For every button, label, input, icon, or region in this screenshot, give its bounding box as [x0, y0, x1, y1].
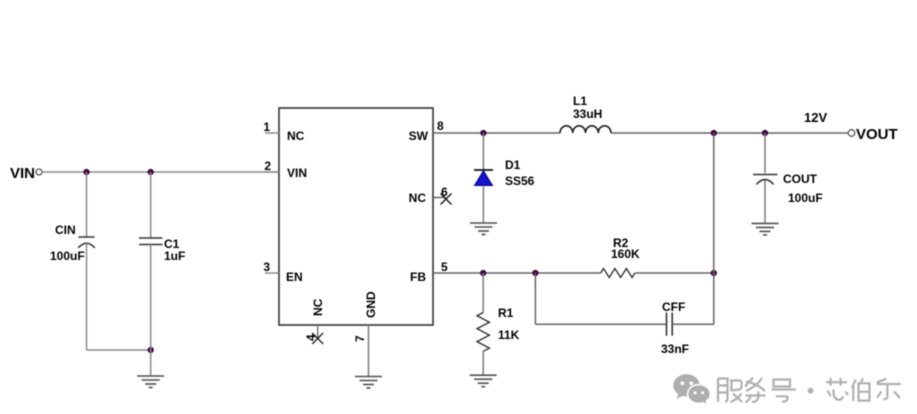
wire COUT top	[764, 133, 766, 173]
wire CIN top	[86, 172, 88, 237]
svg-text:VOUT: VOUT	[856, 126, 898, 143]
wire R1 bottom	[482, 351, 484, 375]
inductor L1	[560, 126, 611, 133]
svg-text:CIN: CIN	[55, 223, 76, 237]
svg-text:EN: EN	[286, 270, 303, 284]
capacitor CFF	[667, 313, 673, 336]
svg-text:11K: 11K	[498, 328, 520, 342]
wire SW rail left	[447, 132, 560, 134]
ground below pin 7	[355, 377, 382, 389]
wire VIN rail	[42, 171, 279, 173]
node junction SW/D1	[481, 130, 486, 135]
svg-text:160K: 160K	[611, 247, 640, 261]
wire FB rail	[447, 272, 601, 274]
svg-text:SS56: SS56	[505, 174, 535, 188]
svg-text:33nF: 33nF	[661, 342, 689, 356]
wire D1 bottom	[482, 186, 484, 224]
watermark text 芯	[826, 378, 848, 400]
svg-text:NC: NC	[409, 191, 427, 205]
svg-text:8: 8	[437, 119, 444, 133]
terminal VOUT	[848, 130, 855, 137]
watermark text 务	[745, 378, 766, 403]
terminal VIN	[36, 169, 42, 175]
node junction VIN/C1	[148, 169, 153, 174]
watermark text 服	[718, 379, 742, 403]
svg-text:NC: NC	[287, 129, 305, 143]
pin 5 stub	[433, 272, 447, 274]
pin 3 stub	[265, 272, 279, 274]
node junction bottom rail	[148, 347, 153, 352]
svg-text:NC: NC	[311, 298, 325, 316]
svg-text:2: 2	[264, 159, 271, 173]
watermark text 号	[772, 380, 797, 402]
ground below COUT	[752, 223, 779, 235]
resistor R2	[601, 269, 635, 278]
svg-text:COUT: COUT	[783, 172, 818, 186]
pin 2 stub	[265, 171, 279, 173]
wire CFF branch vertical left	[534, 273, 536, 324]
pin 4 stub	[317, 325, 319, 338]
svg-text:CFF: CFF	[662, 300, 685, 314]
watermark middle dot	[808, 388, 814, 394]
watermark text 乐	[877, 379, 901, 400]
node junction VIN/CIN	[84, 169, 89, 174]
watermark text 伯	[852, 378, 870, 401]
diode D1 (schottky, cathode up)	[474, 170, 493, 186]
wire CFF branch horizontal right	[672, 323, 714, 325]
svg-text:VIN: VIN	[287, 166, 307, 180]
no-connect X pin 4	[312, 333, 323, 344]
wire R2 right	[635, 272, 714, 274]
ground below D1	[470, 223, 497, 235]
wire feedback vertical	[713, 133, 715, 324]
node junction output/COUT	[762, 130, 767, 135]
pin 7 stub	[368, 325, 370, 377]
svg-text:7: 7	[353, 335, 367, 342]
svg-text:100uF: 100uF	[50, 249, 85, 263]
no-connect X pin 6	[441, 194, 452, 205]
wire D1 top	[482, 133, 484, 170]
watermark wechat logo	[673, 374, 710, 405]
node junction FB/R1	[481, 270, 486, 275]
node junction FB/CFF branch	[533, 270, 538, 275]
wire R1 top	[482, 273, 484, 313]
wire CIN bottom	[86, 244, 88, 351]
capacitor CIN	[78, 237, 95, 248]
svg-text:3: 3	[263, 260, 270, 274]
pin 1 stub	[265, 132, 279, 134]
wire bottom rail CIN-C1	[87, 349, 151, 351]
wire SW rail right	[611, 132, 848, 134]
wire C1 bottom	[150, 245, 152, 377]
svg-text:FB: FB	[410, 270, 426, 284]
svg-text:SW: SW	[409, 129, 429, 143]
op-amp U1 IC body	[279, 108, 433, 325]
pin 6 stub	[433, 197, 446, 199]
svg-text:R1: R1	[498, 306, 514, 320]
node junction output/feedback	[711, 130, 716, 135]
wire CFF branch horizontal left	[535, 323, 666, 325]
svg-text:GND: GND	[364, 291, 378, 318]
ground below R1	[470, 375, 497, 387]
ground below C1	[137, 376, 164, 388]
svg-text:1uF: 1uF	[164, 249, 185, 263]
svg-text:1: 1	[263, 120, 270, 134]
pin 8 stub	[433, 132, 447, 134]
svg-text:33uH: 33uH	[573, 107, 602, 121]
svg-text:12V: 12V	[804, 110, 827, 125]
svg-text:100uF: 100uF	[788, 191, 823, 205]
svg-text:L1: L1	[573, 94, 587, 108]
svg-text:D1: D1	[505, 158, 521, 172]
wire COUT bottom	[764, 180, 766, 223]
node junction feedback/right	[711, 270, 716, 275]
capacitor COUT	[753, 175, 778, 185]
svg-text:5: 5	[441, 260, 448, 274]
wire C1 top	[150, 172, 152, 238]
svg-text:VIN: VIN	[10, 165, 35, 182]
capacitor C1	[139, 238, 163, 245]
resistor R1	[477, 313, 489, 352]
